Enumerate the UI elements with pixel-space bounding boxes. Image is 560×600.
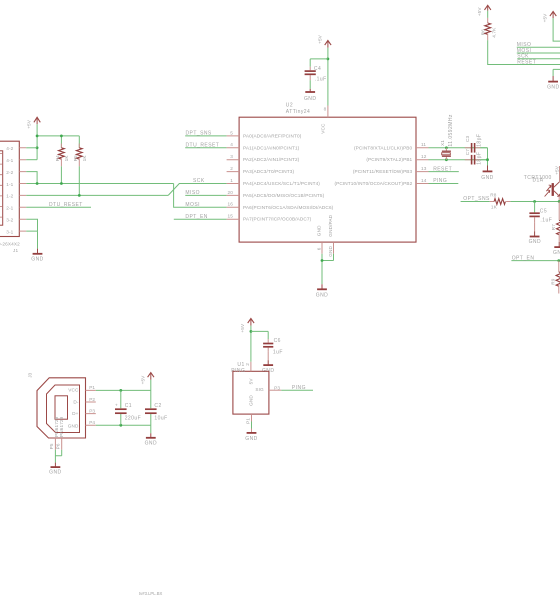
svg-text:5: 5 xyxy=(230,130,233,135)
svg-text:C6: C6 xyxy=(274,338,281,344)
capacitor C1 220uF xyxy=(115,390,141,425)
svg-text:.1uF: .1uF xyxy=(315,77,327,83)
wire OPT_EN row xyxy=(511,260,558,262)
wire J1 1-1 long run xyxy=(26,183,173,185)
ground (R7, clipped) xyxy=(553,242,560,256)
net label DPT_SNS xyxy=(185,131,226,137)
svg-text:1K: 1K xyxy=(82,155,87,162)
svg-text:D+: D+ xyxy=(72,411,79,416)
U2 pin numbers right xyxy=(421,142,427,183)
wire J1 4-1 xyxy=(26,159,37,161)
resistor R5 1K xyxy=(73,144,87,167)
svg-text:R5: R5 xyxy=(73,155,78,162)
U2 pin names right xyxy=(334,145,412,186)
svg-text:+5V: +5V xyxy=(555,165,560,175)
net label PING (U2) xyxy=(429,178,459,184)
wire GND ISP xyxy=(553,69,560,76)
wire shield to gnd xyxy=(55,450,61,463)
net label MISO (ISP) xyxy=(517,42,560,48)
svg-text:4.7K: 4.7K xyxy=(492,27,497,38)
svg-text:11.0592MHz: 11.0592MHz xyxy=(448,114,454,147)
svg-text:C1: C1 xyxy=(125,403,132,409)
svg-text:PING: PING xyxy=(292,385,306,391)
svg-text:R6: R6 xyxy=(480,29,485,36)
opto sensor D1A TCRT1000 xyxy=(524,175,560,196)
U1 GND pin stub xyxy=(245,414,251,424)
svg-text:2: 2 xyxy=(230,166,233,171)
svg-text:+: + xyxy=(115,403,118,408)
node crystal bottom xyxy=(445,158,448,161)
svg-text:R9: R9 xyxy=(551,278,556,285)
svg-text:C4: C4 xyxy=(314,66,321,72)
svg-text:12: 12 xyxy=(421,154,427,159)
wire caps to gnd rail xyxy=(480,148,487,166)
svg-text:GND: GND xyxy=(245,436,257,442)
U2 bottom pin stubs xyxy=(322,242,334,254)
net label DTU_RESET (J1) xyxy=(26,202,91,208)
capacitor C7 18pF xyxy=(465,149,483,165)
svg-text:(PCINT11/RESET/DW)PB3: (PCINT11/RESET/DW)PB3 xyxy=(353,169,413,174)
svg-text:8: 8 xyxy=(324,107,327,112)
ground (USB) xyxy=(145,433,157,446)
wire R4 bottom to MOSI row xyxy=(60,166,62,183)
wire resistor feed xyxy=(37,136,79,148)
node OPT_SNS / rail xyxy=(558,200,560,203)
svg-text:3-1: 3-1 xyxy=(6,229,13,234)
+5V supply (ISP) xyxy=(543,12,557,23)
svg-text:U1: U1 xyxy=(237,362,244,368)
node OPT_EN rail xyxy=(557,259,560,262)
wire J1 4-2 xyxy=(26,147,37,149)
svg-text:RESET: RESET xyxy=(517,59,536,65)
crystal X1 11.0592MHz xyxy=(440,114,454,160)
net label SCK (ISP) xyxy=(517,54,560,60)
svg-text:P3: P3 xyxy=(89,408,95,413)
svg-text:PA6(PCINT6/OC1A/SDA/MOSI/DI/AD: PA6(PCINT6/OC1A/SDA/MOSI/DI/ADC6) xyxy=(243,205,334,210)
U2 pin names left xyxy=(243,133,334,221)
U2 top pin stub (VCC pin 8) xyxy=(327,106,329,118)
wire J1 1-2 long run xyxy=(26,194,168,196)
svg-text:P4: P4 xyxy=(89,420,95,425)
svg-text:D-: D- xyxy=(73,400,79,405)
svg-text:15: 15 xyxy=(228,214,234,219)
svg-text:GND: GND xyxy=(328,246,333,257)
wire C2 to gnd xyxy=(150,425,152,433)
connector J1 xyxy=(0,141,20,253)
wire GND row xyxy=(96,424,151,426)
wire J1 2-2 jog down xyxy=(26,172,37,184)
svg-text:(PCINT9/XTAL2)PB1: (PCINT9/XTAL2)PB1 xyxy=(366,157,412,162)
svg-text:GND: GND xyxy=(31,256,43,262)
svg-text:C5: C5 xyxy=(540,209,547,215)
node dots left rail xyxy=(36,135,39,138)
svg-text:PA1(ADC1/AIN0/PCINT1): PA1(ADC1/AIN0/PCINT1) xyxy=(243,145,300,150)
svg-text:.1uF: .1uF xyxy=(540,218,552,224)
svg-text:GND: GND xyxy=(304,96,316,102)
svg-text:SCK: SCK xyxy=(517,54,529,60)
svg-text:PA2(ADC2/AIN1/PCINT2): PA2(ADC2/AIN1/PCINT2) xyxy=(243,157,300,162)
wire R6 to RESET bus xyxy=(488,40,560,64)
svg-text:VCC: VCC xyxy=(68,388,79,393)
svg-text:2-2: 2-2 xyxy=(6,170,13,175)
svg-text:U2: U2 xyxy=(286,102,293,108)
capacitor C2 10uF xyxy=(145,390,168,425)
svg-text:D1A: D1A xyxy=(533,178,544,184)
svg-text:1uF: 1uF xyxy=(273,350,283,356)
svg-text:SCK: SCK xyxy=(193,178,205,184)
svg-text:RESET: RESET xyxy=(433,166,452,172)
svg-text:GND: GND xyxy=(481,175,493,181)
capacitor C5 .1uF xyxy=(529,202,552,224)
svg-text:P2: P2 xyxy=(89,397,95,402)
svg-text:P6: P6 xyxy=(55,443,60,449)
J3 shield pins P5 P6 xyxy=(49,438,62,450)
light arrows into D1A xyxy=(545,185,552,196)
wire U1 gnd xyxy=(251,422,253,429)
svg-text:+5V: +5V xyxy=(140,375,145,385)
net label DTU_RESET (U2) xyxy=(185,143,226,149)
svg-text:GND: GND xyxy=(529,239,541,245)
svg-text:J1: J1 xyxy=(13,248,18,253)
wire diagonal jog to SCK xyxy=(168,184,226,196)
ground (C4) xyxy=(304,89,316,102)
ground (J1) xyxy=(31,249,43,263)
svg-text:X1: X1 xyxy=(440,140,445,146)
wire +5V to U1 xyxy=(250,326,252,362)
node crystal top xyxy=(445,146,448,149)
svg-text:R7: R7 xyxy=(551,224,556,231)
+5V supply (USB) xyxy=(140,373,154,385)
svg-text:MOSI: MOSI xyxy=(185,202,200,208)
svg-text:2-1: 2-1 xyxy=(6,206,13,211)
wire branch to C6 xyxy=(251,331,268,339)
svg-text:PING: PING xyxy=(433,178,447,184)
svg-text:+5V: +5V xyxy=(543,13,548,23)
wire 1-1 vertical to MOSI xyxy=(174,184,227,208)
J1 pin stubs xyxy=(19,148,26,231)
svg-text:tv#3.LPL.BX: tv#3.LPL.BX xyxy=(139,591,162,596)
svg-text:GND: GND xyxy=(316,293,328,299)
wire U2 gnd pins xyxy=(322,254,334,284)
wire C2 to +5V xyxy=(150,380,152,391)
svg-text:GND: GND xyxy=(68,423,79,428)
svg-text:DPT_SNS: DPT_SNS xyxy=(186,131,212,137)
svg-text:11: 11 xyxy=(421,142,426,147)
+5V supply (left) xyxy=(27,117,41,129)
svg-text:C3: C3 xyxy=(465,135,470,142)
net label MOSI (ISP) xyxy=(517,48,560,54)
svg-text:PING: PING xyxy=(231,368,245,374)
wire XTAL2 row xyxy=(429,159,488,161)
svg-text:GND: GND xyxy=(547,84,559,90)
ground (ISP) xyxy=(547,76,559,90)
svg-text:3: 3 xyxy=(230,154,233,159)
ground (C5) xyxy=(529,222,541,245)
wire DPT_EN stub xyxy=(174,218,227,220)
wire J1 3-2 xyxy=(26,219,37,231)
node C1 bottom xyxy=(119,424,122,427)
svg-text:5V: 5V xyxy=(248,378,253,385)
svg-text:C7: C7 xyxy=(465,149,470,156)
svg-text:(PCINT8/XTAL1/CLKI)PB0: (PCINT8/XTAL1/CLKI)PB0 xyxy=(354,145,413,150)
svg-text:PN61729: PN61729 xyxy=(59,416,64,437)
wire +5V rail down xyxy=(36,124,38,160)
svg-text:P1: P1 xyxy=(245,418,250,424)
connector J3 USB xyxy=(28,372,86,438)
node C1 top xyxy=(119,389,122,392)
svg-text:1K: 1K xyxy=(64,155,69,162)
U2 right pin stubs xyxy=(416,148,429,184)
svg-text:DTU_RESET: DTU_RESET xyxy=(186,143,220,149)
J3 pin stubs xyxy=(86,385,96,425)
wire C4 to gnd xyxy=(309,80,311,89)
resistor R4 1K xyxy=(55,144,69,167)
svg-text:GND/PAD: GND/PAD xyxy=(328,214,333,236)
+5V (opto, at edge) xyxy=(555,165,560,182)
svg-text:C2: C2 xyxy=(154,403,161,409)
svg-text:ATTiny24: ATTiny24 xyxy=(286,109,310,115)
svg-text:PA7(PCINT7/ICP/OC0B/ADC7): PA7(PCINT7/ICP/OC0B/ADC7) xyxy=(243,217,312,222)
node VCC branch xyxy=(327,58,330,61)
svg-text:R4: R4 xyxy=(55,155,60,162)
net label PING (U1) xyxy=(281,385,313,391)
svg-text:4-1: 4-1 xyxy=(6,158,13,163)
svg-text:2: 2 xyxy=(245,363,250,366)
svg-text:1K: 1K xyxy=(491,204,498,209)
svg-text:18pF: 18pF xyxy=(476,134,482,147)
svg-text:6: 6 xyxy=(316,247,321,250)
svg-text:OPT_EN: OPT_EN xyxy=(512,256,535,262)
svg-text:GND: GND xyxy=(553,250,560,256)
+5V supply (R6 pullup) xyxy=(477,5,491,16)
svg-text:13: 13 xyxy=(421,166,427,171)
svg-text:16: 16 xyxy=(228,202,234,207)
ground (J3 shield) xyxy=(49,463,61,476)
svg-text:OPT_SNS: OPT_SNS xyxy=(463,196,490,202)
MCU U2 ATTiny24 xyxy=(239,102,416,242)
resistor R9 (at edge) xyxy=(551,261,560,294)
svg-text:P5: P5 xyxy=(49,443,54,449)
svg-text:DTU_RESET: DTU_RESET xyxy=(49,202,83,208)
wire VBUS row xyxy=(96,389,151,391)
svg-text:+5V: +5V xyxy=(27,119,32,129)
resistor R8 1K xyxy=(490,193,511,210)
+5V supply (top middle) xyxy=(317,34,331,47)
wire D1A emitter rail xyxy=(558,196,560,201)
wire +5V to VCC xyxy=(327,48,329,106)
+5V supply (PING) xyxy=(240,319,254,333)
svg-text:18pF: 18pF xyxy=(476,152,482,165)
wire J1 3-1 to gnd xyxy=(26,231,37,249)
svg-text:PA5(ADC5/DO/MISO/OC1B/PCINT5): PA5(ADC5/DO/MISO/OC1B/PCINT5) xyxy=(243,193,325,198)
svg-text:J3: J3 xyxy=(28,372,33,377)
svg-text:VCC: VCC xyxy=(321,123,326,134)
svg-text:20: 20 xyxy=(228,190,234,195)
resistor R6 4.7K xyxy=(480,11,496,41)
net label RESET (U2) xyxy=(429,166,459,172)
U1 SIG pin stub xyxy=(269,385,281,390)
capacitor C4 .1uF xyxy=(305,66,327,83)
wire +5V ISP xyxy=(553,18,560,41)
wire XTAL1 row xyxy=(429,147,488,149)
svg-text:P3: P3 xyxy=(274,385,280,390)
svg-text:GND: GND xyxy=(248,395,253,406)
svg-text:PA3(ADC3/T0/PCINT3): PA3(ADC3/T0/PCINT3) xyxy=(243,169,294,174)
svg-text:14: 14 xyxy=(421,178,427,183)
svg-text:P1: P1 xyxy=(89,385,95,390)
svg-text:9-26X4X2: 9-26X4X2 xyxy=(0,242,20,247)
wire OPT_SNS row xyxy=(461,201,560,203)
svg-text:+5V: +5V xyxy=(477,7,482,17)
svg-text:10uF: 10uF xyxy=(154,415,167,421)
wire R5 bottom to SCK row xyxy=(78,166,80,195)
svg-text:(PCINT10/INT0/OC0A/CKOUT)PB2: (PCINT10/INT0/OC0A/CKOUT)PB2 xyxy=(334,181,412,186)
svg-text:GND: GND xyxy=(49,470,61,476)
svg-text:3-2: 3-2 xyxy=(6,218,13,223)
ground (U1) xyxy=(245,429,257,442)
ground (C6) xyxy=(262,352,274,374)
svg-text:1-1: 1-1 xyxy=(6,182,13,187)
capacitor C3 18pF xyxy=(465,134,483,153)
wire MISO stub xyxy=(185,194,226,196)
ground (U2) xyxy=(316,284,328,298)
ground (crystal) xyxy=(481,166,493,181)
svg-text:4: 4 xyxy=(230,142,233,147)
svg-text:GND: GND xyxy=(317,225,322,236)
U2 left pin stubs xyxy=(227,136,240,219)
sensor U1 PING xyxy=(231,362,269,414)
svg-text:1: 1 xyxy=(230,178,233,183)
svg-text:+5V: +5V xyxy=(240,323,245,333)
svg-text:4-2: 4-2 xyxy=(6,146,13,151)
svg-text:1-2: 1-2 xyxy=(6,194,13,199)
svg-text:GND: GND xyxy=(145,440,157,446)
svg-text:220uF: 220uF xyxy=(125,415,141,421)
svg-text:SIG: SIG xyxy=(255,387,264,392)
capacitor C6 1uF xyxy=(263,338,283,355)
svg-text:+5V: +5V xyxy=(317,34,322,44)
svg-text:MISO: MISO xyxy=(185,190,200,196)
svg-text:DPT_EN: DPT_EN xyxy=(185,214,207,220)
node OPT_SNS / C5 xyxy=(533,200,536,203)
svg-text:R8: R8 xyxy=(490,193,497,198)
wire to C4 xyxy=(310,59,328,67)
U2 pin numbers left xyxy=(228,130,234,218)
svg-text:PA0(ADC0/AREF/PCINT0): PA0(ADC0/AREF/PCINT0) xyxy=(243,133,302,138)
svg-text:PA4(ADC4/USCK/SCL/T1/PCINT4): PA4(ADC4/USCK/SCL/T1/PCINT4) xyxy=(243,181,320,186)
resistor R7 (pulldown at edge) xyxy=(551,202,560,243)
